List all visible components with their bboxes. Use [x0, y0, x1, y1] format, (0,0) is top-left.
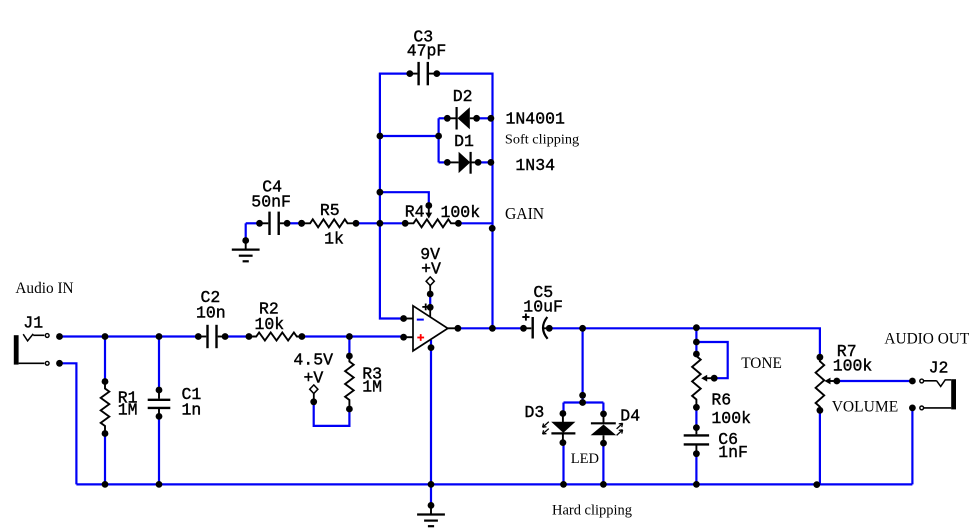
svg-text:50nF: 50nF	[251, 192, 291, 211]
svg-text:100k: 100k	[711, 409, 751, 428]
svg-text:1M: 1M	[118, 401, 138, 420]
svg-text:1N34: 1N34	[515, 156, 555, 175]
svg-text:10uF: 10uF	[523, 298, 563, 317]
svg-text:D4: D4	[620, 407, 640, 426]
svg-text:100k: 100k	[833, 357, 873, 376]
svg-text:Soft clipping: Soft clipping	[505, 133, 579, 148]
svg-text:1n: 1n	[182, 401, 202, 420]
svg-text:10n: 10n	[196, 304, 226, 323]
svg-text:R4: R4	[405, 203, 425, 222]
svg-text:R6: R6	[711, 391, 731, 410]
svg-text:LED: LED	[571, 451, 599, 467]
svg-text:47pF: 47pF	[407, 42, 447, 61]
svg-text:VOLUME: VOLUME	[832, 399, 899, 416]
svg-text:+V: +V	[304, 369, 324, 388]
svg-text:D2: D2	[453, 87, 473, 106]
svg-text:D1: D1	[454, 132, 474, 151]
svg-text:J2: J2	[929, 358, 949, 377]
svg-text:+V: +V	[421, 260, 441, 279]
svg-text:Audio IN: Audio IN	[15, 280, 74, 297]
svg-text:1k: 1k	[324, 230, 344, 249]
svg-text:R5: R5	[320, 201, 340, 220]
svg-text:TONE: TONE	[741, 355, 782, 372]
svg-text:1M: 1M	[362, 377, 382, 396]
svg-text:D3: D3	[525, 403, 545, 422]
svg-text:GAIN: GAIN	[505, 204, 544, 223]
svg-text:10k: 10k	[255, 315, 285, 334]
svg-text:1nF: 1nF	[718, 443, 748, 462]
svg-text:AUDIO OUT: AUDIO OUT	[884, 331, 969, 348]
svg-text:100k: 100k	[441, 203, 481, 222]
svg-text:1N4001: 1N4001	[506, 109, 565, 128]
svg-text:J1: J1	[23, 314, 43, 333]
svg-text:Hard clipping: Hard clipping	[552, 502, 632, 518]
svg-text:4.5V: 4.5V	[293, 351, 333, 370]
